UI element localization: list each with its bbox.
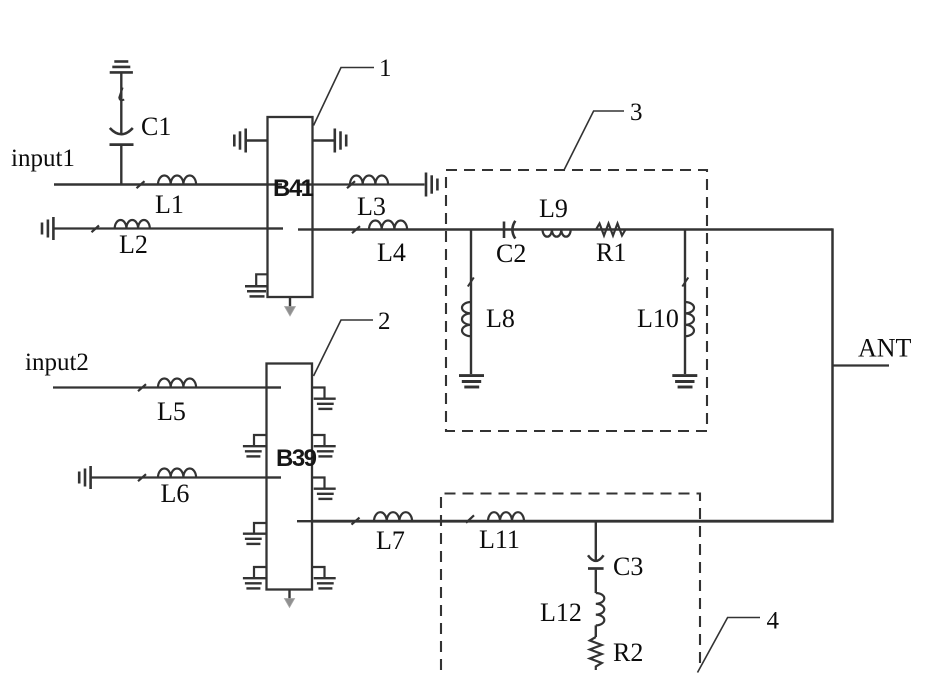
svg-text:4: 4	[767, 608, 780, 635]
dashed box 4 (bottom open)	[441, 494, 700, 671]
wire (C3 to L12)	[595, 570, 597, 593]
ground (left of L2)	[42, 217, 53, 240]
inductor L7	[374, 512, 412, 521]
filter block U2 B39	[267, 364, 313, 590]
svg-text:L6: L6	[161, 479, 190, 508]
capacitor C3	[588, 555, 604, 561]
ground (B39 left hook 2)	[254, 523, 267, 533]
ground (B39 left hook 1)	[254, 435, 267, 445]
svg-text:L2: L2	[119, 230, 148, 259]
wire ANT stub	[833, 364, 890, 366]
svg-text:L8: L8	[486, 304, 515, 333]
wire stubs through B41	[268, 183, 283, 185]
filter block U1 B41	[268, 117, 313, 297]
svg-text:L12: L12	[540, 598, 582, 627]
wire (node to C3)	[595, 521, 597, 560]
svg-text:B39: B39	[276, 445, 317, 472]
label 2 leader	[314, 320, 374, 376]
label 3 leader	[564, 111, 624, 170]
ground (inverted, above C1)	[110, 62, 133, 73]
svg-text:ANT: ANT	[858, 334, 912, 363]
svg-text:C2: C2	[496, 239, 526, 268]
inductor L12 (humps right)	[596, 593, 605, 625]
svg-text:L3: L3	[357, 192, 386, 221]
node ANT bus	[831, 228, 834, 522]
wire (L12 to R2)	[595, 625, 597, 637]
inductor L6	[158, 469, 196, 478]
inductor L10 (humps right)	[685, 302, 694, 336]
wire L7 line to ANT bus	[312, 520, 833, 523]
capacitor C2	[504, 221, 515, 239]
wire (ground to C1)	[120, 74, 122, 134]
svg-text:L5: L5	[157, 397, 186, 426]
svg-text:C3: C3	[613, 552, 643, 581]
svg-text:3: 3	[630, 99, 643, 126]
wire stubs through B39	[267, 386, 282, 388]
inductor L8 (humps left)	[462, 302, 471, 336]
svg-text:input2: input2	[25, 349, 89, 376]
ground (left of L6)	[79, 466, 90, 489]
ground (hook, bottom-left of B41)	[256, 274, 267, 285]
svg-text:1: 1	[379, 55, 392, 82]
svg-text:R1: R1	[596, 238, 626, 267]
label 1 leader	[314, 68, 375, 126]
pin arrow below B39	[288, 590, 290, 600]
inductor L5	[158, 379, 196, 388]
resistor R1	[596, 224, 626, 236]
ground (right of L3)	[426, 173, 437, 197]
wire L2 line	[53, 227, 267, 229]
svg-text:L7: L7	[376, 526, 405, 555]
capacitor C1	[110, 128, 133, 134]
svg-text:L11: L11	[479, 525, 520, 554]
svg-text:2: 2	[378, 308, 391, 335]
inductor L2	[115, 220, 150, 229]
svg-text:R2: R2	[613, 638, 643, 667]
ground (B39 right hook 4)	[312, 567, 325, 577]
inductor L9 (humps below line)	[543, 230, 571, 237]
ground (under L8)	[459, 376, 484, 387]
wire (C1 to input1 line)	[120, 146, 122, 185]
wire input2 line	[53, 386, 267, 388]
wire input1 line	[54, 183, 268, 186]
svg-text:C1: C1	[141, 112, 171, 141]
ground (left side of B41)	[246, 139, 268, 141]
ground (B39 right hook 1)	[312, 388, 325, 398]
inductor L11	[466, 515, 474, 523]
ground (right side of B41)	[313, 139, 335, 141]
ground (under L10)	[672, 376, 697, 387]
svg-text:B41: B41	[273, 175, 314, 202]
svg-text:input1: input1	[11, 145, 75, 172]
svg-text:L10: L10	[637, 304, 679, 333]
inductor L4	[369, 221, 407, 230]
svg-text:L1: L1	[155, 190, 184, 219]
label 4 leader	[698, 618, 761, 673]
ground (B39 right hook 2)	[312, 435, 325, 445]
resistor R2	[590, 637, 602, 670]
wire L4 main line to ANT bus	[313, 228, 833, 230]
ground (B39 left hook 3)	[254, 567, 267, 577]
ground (B39 right hook 3)	[312, 478, 325, 488]
dashed box 3	[446, 170, 707, 431]
pin arrow below B41	[289, 297, 291, 307]
inductor L1	[158, 176, 196, 185]
inductor L3	[350, 176, 388, 185]
wire (node to L10)	[684, 230, 686, 375]
svg-text:L9: L9	[539, 194, 568, 223]
wire L3 line	[313, 183, 425, 185]
svg-text:L4: L4	[377, 238, 406, 267]
wire L6 line	[91, 476, 267, 478]
wire (node to L8)	[470, 230, 472, 375]
